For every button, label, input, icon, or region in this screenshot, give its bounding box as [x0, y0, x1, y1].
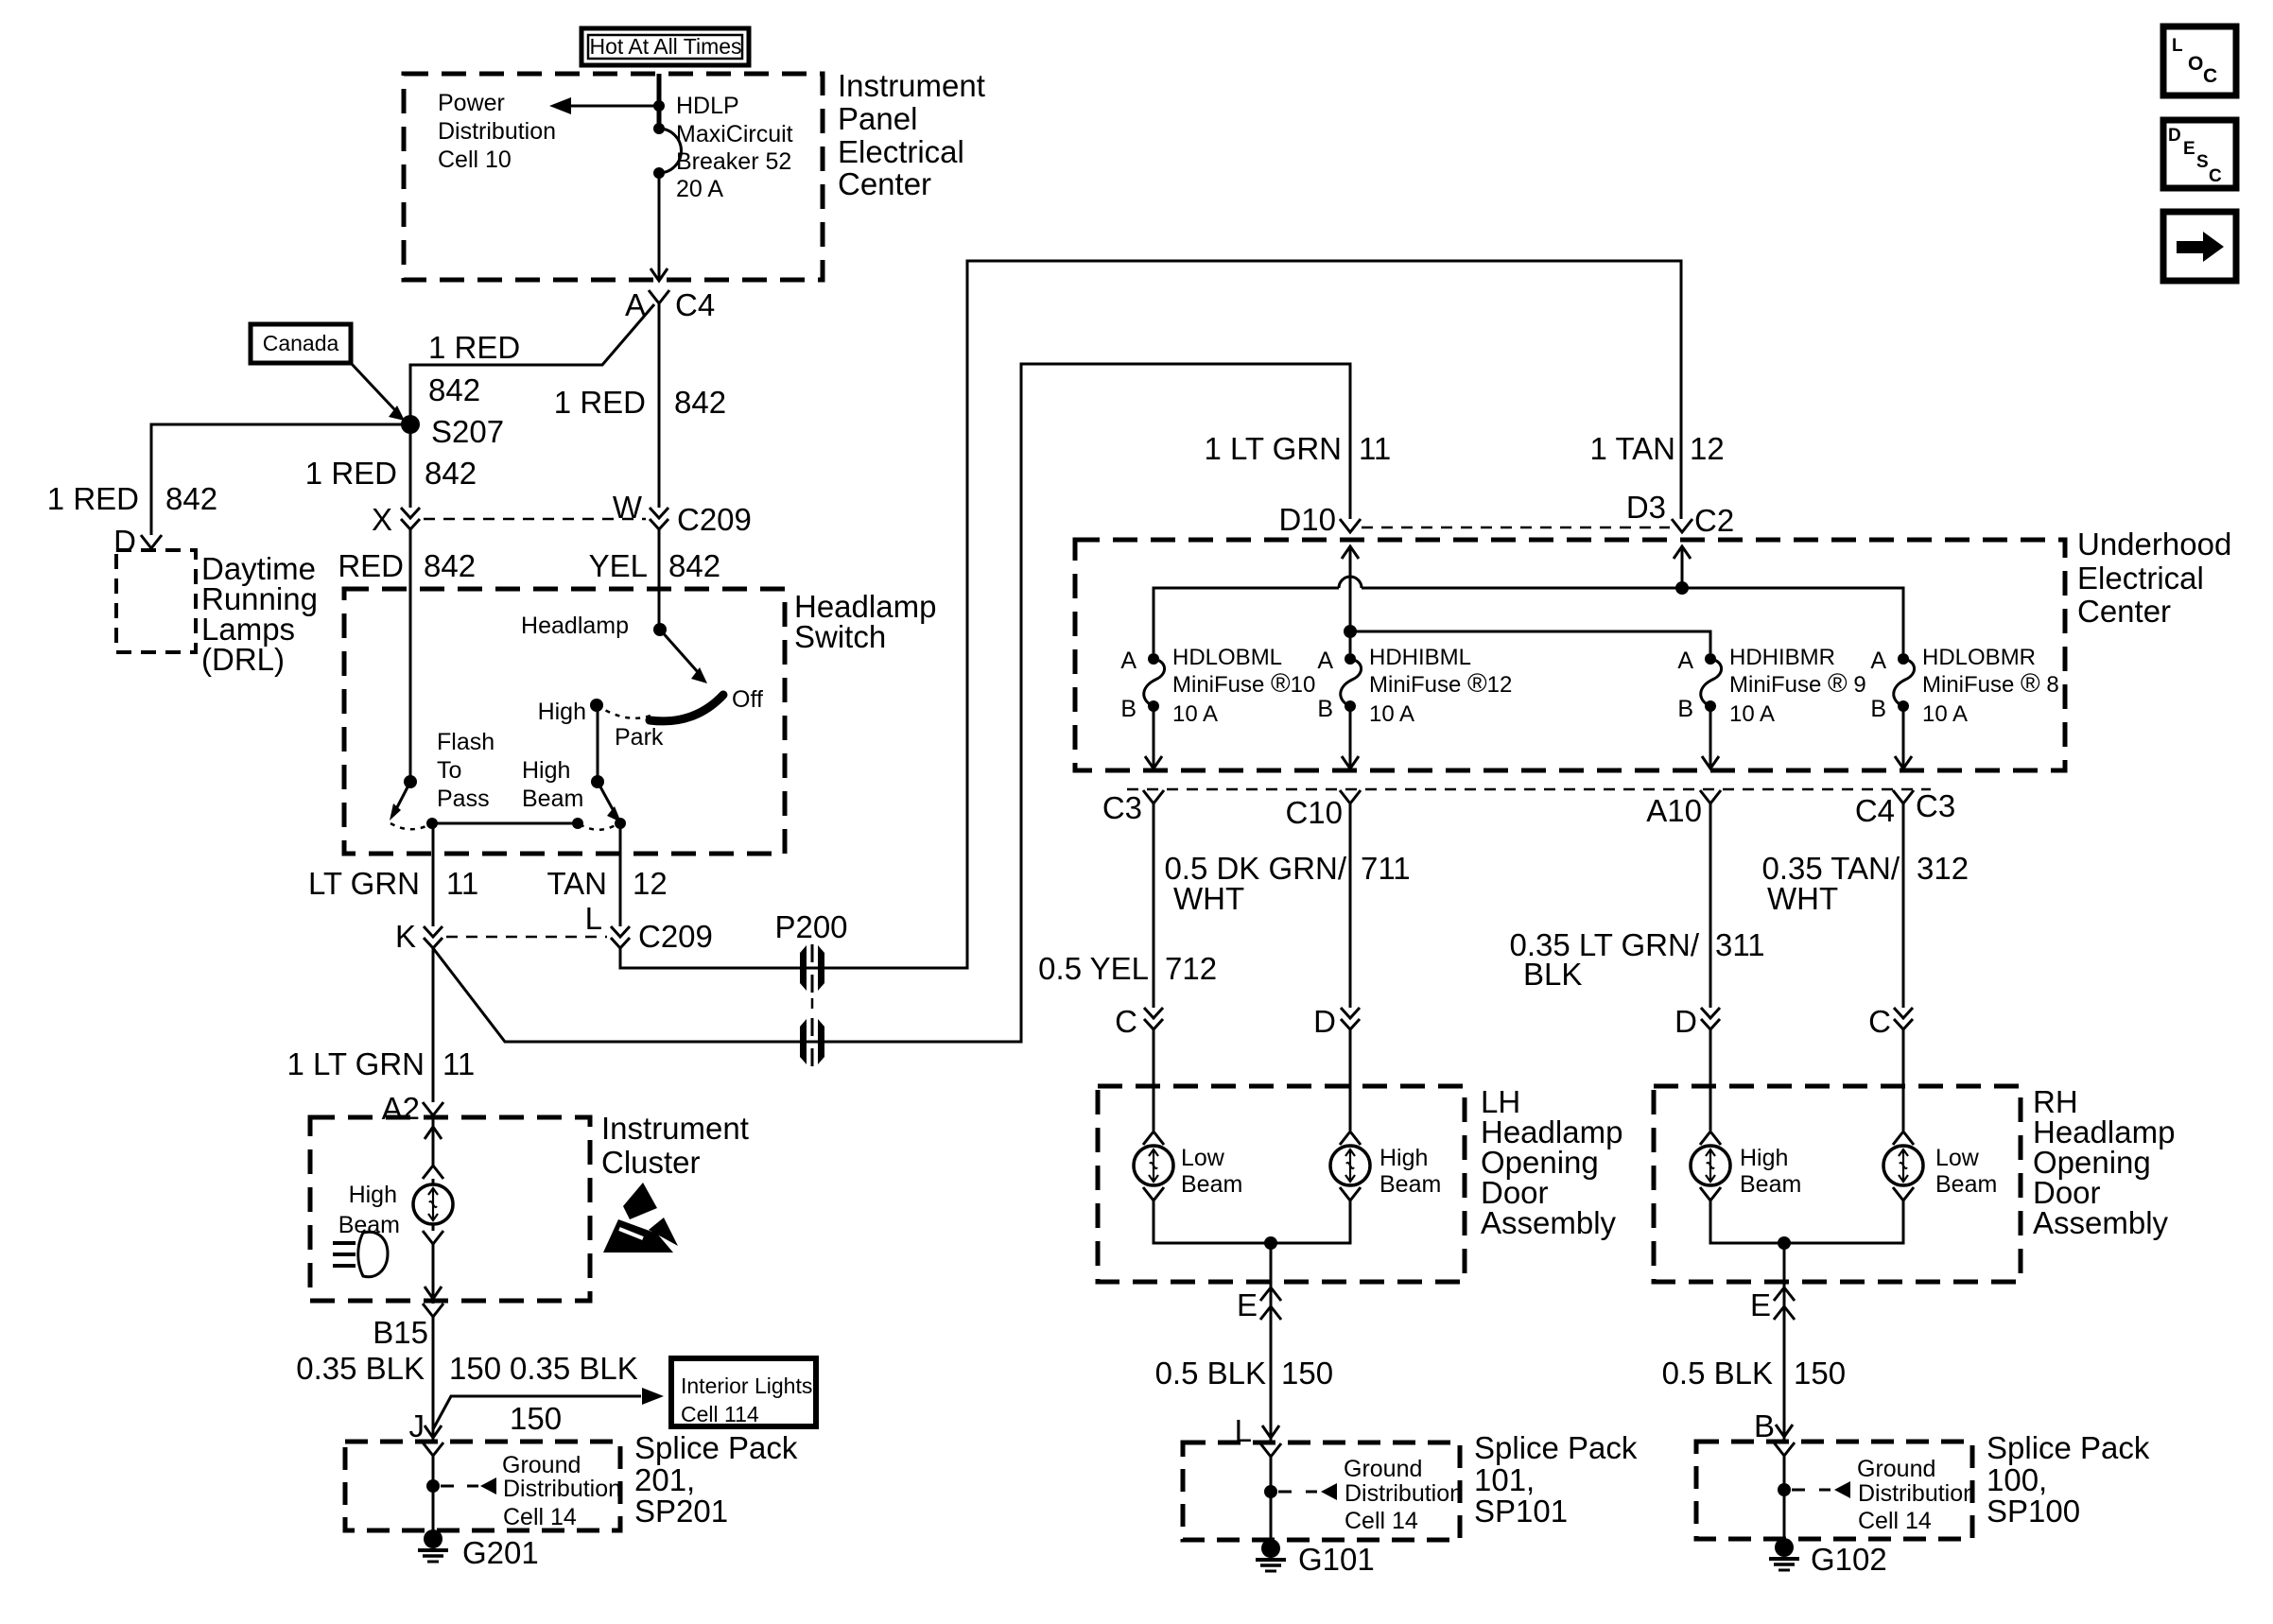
- svg-text:Canada: Canada: [263, 331, 339, 355]
- dashed arc high contact: [580, 823, 618, 830]
- svg-text:1 RED: 1 RED: [305, 456, 397, 491]
- svg-text:Cell 114: Cell 114: [681, 1402, 759, 1426]
- connector E LH: [1237, 1287, 1281, 1322]
- svg-text:E: E: [2183, 139, 2195, 159]
- dashed arc High to Park: [597, 705, 651, 718]
- svg-text:Splice Pack: Splice Pack: [1474, 1430, 1638, 1465]
- node High contact: [590, 699, 603, 712]
- svg-text:0.35 BLK: 0.35 BLK: [510, 1351, 638, 1386]
- wire 1 RED 842 branch to S207: [410, 304, 654, 424]
- svg-text:Distribution: Distribution: [1345, 1480, 1463, 1507]
- svg-text:312: 312: [1917, 851, 1969, 886]
- label 0.5 BLK 150 RH: [1662, 1356, 1846, 1391]
- svg-text:1 LT GRN: 1 LT GRN: [287, 1046, 425, 1081]
- label 0.35 BLK 150: [296, 1351, 501, 1386]
- wire YEL into switch: [658, 529, 661, 630]
- switch arm flash to pass: [390, 782, 410, 821]
- connector L of C209: [585, 901, 713, 954]
- svg-text:High: High: [522, 757, 570, 784]
- component box Splice Pack 201: [345, 1442, 620, 1530]
- wire TAN 12 route through P200 to C2: [620, 261, 1681, 968]
- switch wiper arc Off-Park: [650, 695, 723, 721]
- svg-text:D10: D10: [1278, 502, 1336, 537]
- svg-text:311: 311: [1715, 927, 1765, 962]
- svg-text:C10: C10: [1285, 795, 1343, 830]
- svg-text:C: C: [1868, 1004, 1891, 1039]
- node contact LT GRN: [426, 818, 438, 829]
- label High Beam: [522, 757, 583, 812]
- svg-text:High: High: [1379, 1145, 1428, 1171]
- connector C4 pin A: [625, 287, 715, 322]
- ground G102: [1769, 1538, 1887, 1577]
- wire into RH box high: [1709, 1029, 1712, 1131]
- label 1 LT GRN 11 left: [287, 1046, 476, 1081]
- wire B15 to J: [432, 1317, 435, 1443]
- svg-text:0.5 YEL: 0.5 YEL: [1038, 951, 1149, 986]
- wire High to high-beam pivot: [597, 705, 599, 782]
- wire HDLOBML output: [1145, 706, 1162, 769]
- connector B to splice pack 100: [1754, 1408, 1793, 1443]
- label 1 RED 842 below S207: [305, 456, 477, 491]
- svg-text:842: 842: [674, 385, 726, 420]
- svg-text:G101: G101: [1298, 1542, 1375, 1577]
- svg-text:1 RED: 1 RED: [47, 481, 139, 516]
- lamp RH Low Beam: [1883, 1132, 1997, 1201]
- connector A10: [1646, 790, 1721, 828]
- svg-text:A2: A2: [382, 1091, 420, 1126]
- svg-text:12: 12: [633, 866, 668, 901]
- dashed arc flash contact: [390, 823, 430, 829]
- svg-text:SP100: SP100: [1987, 1494, 2080, 1529]
- icon LOC: [2163, 26, 2236, 95]
- svg-text:HDHIBMR: HDHIBMR: [1729, 645, 1835, 670]
- arrow Canada to S207: [351, 363, 405, 421]
- svg-text:Beam: Beam: [1935, 1171, 1997, 1198]
- connector E RH: [1750, 1287, 1795, 1322]
- wire bus2 high beam feed: [1350, 631, 1710, 653]
- svg-text:100,: 100,: [1987, 1462, 2047, 1497]
- wire C2 drop to bus1: [1681, 546, 1684, 588]
- fuse HDLOBMR MiniFuse 8: [1870, 645, 2058, 727]
- svg-text:Center: Center: [2077, 594, 2171, 629]
- wire RED into switch: [409, 529, 412, 782]
- connector C3 left: [1102, 790, 1164, 825]
- wire HDHIBMR output: [1702, 706, 1719, 769]
- svg-text:B: B: [1120, 696, 1136, 722]
- wire 0.35 LT GRN/BLK 311: [1709, 803, 1712, 1008]
- connector C10: [1285, 790, 1361, 830]
- svg-text:SP201: SP201: [634, 1494, 728, 1529]
- splice J with arrow: [409, 1408, 442, 1443]
- label 1 TAN 12 right: [1590, 431, 1725, 466]
- svg-text:High: High: [538, 699, 586, 725]
- switch arm high beam: [598, 782, 621, 822]
- wire hop over at bus1: [1339, 577, 1362, 588]
- svg-text:B: B: [1870, 696, 1886, 722]
- svg-text:842: 842: [165, 481, 217, 516]
- wire left branch to DRL: [151, 424, 410, 535]
- svg-text:MiniFuse ® 9: MiniFuse ® 9: [1729, 668, 1866, 698]
- wire bus1 low beam feed: [1154, 588, 1903, 653]
- wire 0.5 DK GRN/WHT 711: [1349, 803, 1352, 1008]
- svg-text:Headlamp: Headlamp: [521, 613, 629, 639]
- splice S207: [401, 414, 504, 449]
- wire D10 drop to bus2: [1349, 546, 1352, 653]
- svg-text:Beam: Beam: [1379, 1171, 1441, 1198]
- svg-text:711: 711: [1361, 851, 1411, 886]
- label Ground Distribution Cell 14 at SP100: [1857, 1456, 1976, 1534]
- label 0.35 TAN/WHT 312: [1761, 851, 1969, 916]
- svg-text:C3: C3: [1916, 788, 1955, 823]
- svg-text:Center: Center: [838, 166, 931, 201]
- circuit breaker HDLP MaxiCircuit Breaker 52: [653, 123, 681, 179]
- wire LT GRN output: [432, 823, 435, 926]
- label Underhood Electrical Center: [2077, 527, 2231, 629]
- fuse HDHIBML MiniFuse 12: [1317, 645, 1512, 727]
- svg-text:Beam: Beam: [338, 1212, 400, 1238]
- svg-text:MiniFuse ® 8: MiniFuse ® 8: [1922, 668, 2059, 698]
- wire 0.5 YEL 712: [1153, 803, 1155, 1008]
- svg-text:C4: C4: [675, 287, 715, 322]
- ground G201: [418, 1529, 539, 1570]
- wire hot feed stub: [657, 74, 662, 129]
- component box LH Headlamp Opening Door Assembly: [1098, 1086, 1465, 1282]
- lamp High Beam indicator: [338, 1166, 453, 1244]
- connector A2: [382, 1091, 443, 1126]
- svg-text:L: L: [585, 901, 602, 936]
- svg-text:WHT: WHT: [1173, 881, 1244, 916]
- svg-text:Electrical: Electrical: [838, 134, 964, 169]
- svg-text:J: J: [409, 1408, 425, 1443]
- label Instrument Panel Electrical Center: [838, 68, 985, 201]
- svg-text:Cluster: Cluster: [601, 1145, 701, 1180]
- node headlamp pivot: [653, 623, 667, 636]
- label Power Distribution Cell 10: [438, 90, 556, 173]
- svg-text:G201: G201: [462, 1535, 539, 1570]
- wire HDHIBML output: [1342, 706, 1359, 769]
- svg-text:D: D: [2168, 126, 2181, 146]
- connector D to DRL: [113, 524, 162, 559]
- svg-text:12: 12: [1690, 431, 1725, 466]
- svg-text:BLK: BLK: [1523, 957, 1582, 992]
- svg-text:(DRL): (DRL): [201, 642, 285, 677]
- svg-text:101,: 101,: [1474, 1462, 1535, 1497]
- label Flash To Pass: [437, 729, 495, 812]
- svg-text:B: B: [1754, 1408, 1775, 1443]
- svg-text:Assembly: Assembly: [1481, 1205, 1617, 1240]
- svg-text:Flash: Flash: [437, 729, 495, 755]
- arrow up to D10 inside box: [1342, 546, 1359, 559]
- pass-through connector P200 upper: [800, 944, 824, 993]
- lamp LH Low Beam: [1134, 1132, 1242, 1201]
- svg-text:0.5 BLK: 0.5 BLK: [1155, 1356, 1266, 1391]
- svg-text:A: A: [1120, 648, 1136, 674]
- component box Instrument Panel Electrical Center: [404, 74, 823, 280]
- component box Splice Pack 100: [1696, 1442, 1972, 1539]
- svg-text:P200: P200: [774, 909, 847, 944]
- svg-text:G102: G102: [1811, 1542, 1887, 1577]
- svg-text:HDLOBMR: HDLOBMR: [1922, 645, 2036, 670]
- svg-text:Beam: Beam: [522, 786, 583, 812]
- svg-text:Cell 14: Cell 14: [1858, 1508, 1932, 1534]
- svg-text:Power: Power: [438, 90, 505, 116]
- svg-text:D: D: [1313, 1004, 1336, 1039]
- label 0.5 YEL 712: [1038, 951, 1217, 986]
- svg-text:MiniFuse ®12: MiniFuse ®12: [1369, 668, 1512, 698]
- component box Daytime Running Lamps DRL: [116, 550, 196, 652]
- label LH Headlamp Opening Door Assembly: [1481, 1084, 1622, 1240]
- node contact TAN: [615, 818, 626, 829]
- svg-text:LT GRN: LT GRN: [308, 866, 420, 901]
- wire LT GRN 11 route through P200 to D10: [433, 364, 1350, 1042]
- label 1 LT GRN 11 right: [1205, 431, 1392, 466]
- svg-text:A: A: [1677, 648, 1693, 674]
- svg-text:C3: C3: [1102, 790, 1142, 825]
- svg-text:O: O: [2188, 53, 2203, 75]
- svg-text:Distribution: Distribution: [503, 1476, 621, 1502]
- svg-text:712: 712: [1165, 951, 1217, 986]
- wire contact link: [432, 822, 578, 825]
- connector B15: [373, 1304, 443, 1350]
- node bus2 junction: [1344, 625, 1357, 638]
- component box Headlamp Switch: [344, 589, 785, 854]
- svg-text:C209: C209: [638, 919, 713, 954]
- svg-text:High: High: [1740, 1145, 1788, 1171]
- svg-text:Instrument: Instrument: [601, 1111, 749, 1146]
- arrow up to C2 inside box: [1674, 546, 1691, 559]
- svg-text:150: 150: [1794, 1356, 1846, 1391]
- label Ground Distribution Cell 14 at SP201: [502, 1452, 621, 1530]
- arrow to power distribution: [549, 97, 571, 114]
- svg-text:Switch: Switch: [794, 619, 886, 654]
- svg-text:0.5 BLK: 0.5 BLK: [1662, 1356, 1773, 1391]
- svg-text:B15: B15: [373, 1315, 428, 1350]
- label Ground Distribution Cell 14 at SP101: [1344, 1456, 1463, 1534]
- svg-text:Distribution: Distribution: [1858, 1480, 1976, 1507]
- connector C4 C3 right: [1855, 788, 1955, 828]
- svg-text:Breaker 52: Breaker 52: [676, 148, 791, 175]
- svg-text:11: 11: [446, 866, 478, 901]
- wire dashed underhood bottom connector row: [1127, 788, 1931, 791]
- wire RH lamp join: [1710, 1201, 1903, 1243]
- component box RH Headlamp Opening Door Assembly: [1654, 1086, 2021, 1282]
- svg-text:Ground: Ground: [1344, 1456, 1422, 1482]
- fuse HDHIBMR MiniFuse 9: [1677, 645, 1865, 727]
- svg-text:10 A: 10 A: [1922, 701, 1968, 727]
- svg-text:C: C: [2203, 65, 2217, 87]
- wire splice 101: [1270, 1457, 1273, 1548]
- wire TAN output: [619, 823, 622, 926]
- svg-text:842: 842: [425, 456, 477, 491]
- svg-text:Interior Lights: Interior Lights: [681, 1373, 812, 1398]
- label 1 RED 842 left: [47, 481, 217, 516]
- svg-text:Ground: Ground: [1857, 1456, 1935, 1482]
- wire breaker output: [658, 173, 661, 281]
- wire into LH box high: [1349, 1029, 1352, 1131]
- connector D on RH high beam: [1674, 1004, 1720, 1039]
- ground G101: [1256, 1539, 1375, 1577]
- arrow ground distribution 201: [441, 1477, 496, 1494]
- svg-text:E: E: [1237, 1287, 1258, 1322]
- wire S207 down to X: [409, 434, 412, 508]
- callout Interior Lights Cell 114: [671, 1358, 816, 1426]
- switch arm headlamp to Off: [660, 630, 707, 683]
- label 0.5 DK GRN/WHT 711: [1164, 851, 1410, 916]
- label Instrument Cluster: [601, 1111, 749, 1180]
- component box Splice Pack 101: [1183, 1443, 1460, 1540]
- svg-text:MaxiCircuit: MaxiCircuit: [676, 121, 793, 147]
- wire into LH box low: [1153, 1029, 1155, 1131]
- svg-text:Off: Off: [732, 686, 763, 713]
- node LH join: [1264, 1236, 1277, 1250]
- lamp LH High Beam: [1330, 1132, 1441, 1201]
- svg-text:A: A: [1870, 648, 1886, 674]
- svg-text:Splice Pack: Splice Pack: [1987, 1430, 2150, 1465]
- node splice 100: [1778, 1483, 1791, 1496]
- label 0.35 LT GRN/BLK 311: [1509, 927, 1764, 992]
- label 0.5 BLK 150 LH: [1155, 1356, 1333, 1391]
- svg-text:150: 150: [1281, 1356, 1333, 1391]
- svg-text:Beam: Beam: [1740, 1171, 1801, 1198]
- svg-text:10 A: 10 A: [1369, 701, 1414, 727]
- svg-text:C4: C4: [1855, 793, 1895, 828]
- svg-text:A10: A10: [1646, 793, 1702, 828]
- label 1 RED 842 on C4 wire: [554, 385, 726, 420]
- svg-text:Distribution: Distribution: [438, 118, 556, 145]
- svg-text:Electrical: Electrical: [2077, 561, 2204, 596]
- svg-text:1 RED: 1 RED: [428, 330, 520, 365]
- svg-text:RED: RED: [338, 548, 404, 583]
- wire LH lamp join: [1154, 1201, 1350, 1243]
- node splice 201: [426, 1479, 440, 1493]
- svg-text:201,: 201,: [634, 1462, 695, 1497]
- svg-text:E: E: [1750, 1287, 1771, 1322]
- component box Underhood Electrical Center: [1075, 540, 2065, 770]
- connector C on RH low beam: [1868, 1004, 1913, 1039]
- svg-text:10 A: 10 A: [1729, 701, 1775, 727]
- svg-text:Low: Low: [1181, 1145, 1225, 1171]
- svg-text:Splice Pack: Splice Pack: [634, 1430, 798, 1465]
- callout Canada: [251, 324, 351, 363]
- svg-text:HDHIBML: HDHIBML: [1369, 645, 1471, 670]
- arrow down at box exit: [651, 268, 668, 281]
- label Daytime Running Lamps (DRL): [201, 551, 318, 677]
- wire power distribution branch: [567, 105, 659, 108]
- label HDLP MaxiCircuit Breaker 52 20 A: [676, 93, 793, 202]
- callout Hot At All Times: [581, 28, 749, 65]
- svg-text:Panel: Panel: [838, 101, 917, 136]
- wire RH ground drop: [1783, 1243, 1786, 1442]
- icon forward arrow: [2163, 212, 2236, 281]
- node junction on feed: [653, 100, 665, 112]
- svg-text:K: K: [395, 919, 416, 954]
- wire HDLOBMR output: [1895, 706, 1912, 769]
- label Splice Pack 201 SP201: [634, 1430, 798, 1529]
- svg-text:20 A: 20 A: [676, 176, 723, 202]
- svg-text:Underhood: Underhood: [2077, 527, 2231, 561]
- connector C on LH low beam: [1115, 1004, 1163, 1039]
- svg-text:11: 11: [1359, 431, 1391, 466]
- wire K down to instrument cluster: [432, 948, 435, 1102]
- connector D10: [1278, 502, 1361, 537]
- svg-text:1 TAN: 1 TAN: [1590, 431, 1675, 466]
- connector X of C209: [372, 502, 420, 537]
- svg-text:10 A: 10 A: [1172, 701, 1218, 727]
- svg-text:Cell 10: Cell 10: [438, 147, 512, 173]
- node high-beam pivot: [591, 775, 604, 788]
- svg-text:842: 842: [428, 372, 480, 407]
- label Splice Pack 100 SP100: [1987, 1430, 2150, 1529]
- label RED 842: [338, 548, 476, 583]
- node contact link right: [572, 818, 583, 829]
- wire 0.35 TAN/WHT 312: [1902, 803, 1905, 1008]
- svg-text:842: 842: [668, 548, 720, 583]
- svg-text:A: A: [1317, 648, 1333, 674]
- svg-text:Cell 14: Cell 14: [1345, 1508, 1418, 1534]
- svg-text:11: 11: [442, 1046, 475, 1081]
- node flash pivot: [404, 775, 417, 788]
- wire LH ground drop: [1270, 1243, 1273, 1443]
- svg-text:Ground: Ground: [502, 1452, 581, 1478]
- wire dashed D10-D3: [1362, 527, 1670, 529]
- svg-text:SP101: SP101: [1474, 1494, 1568, 1529]
- arrow ground distribution 100: [1792, 1481, 1850, 1498]
- svg-text:842: 842: [424, 548, 476, 583]
- label YEL 842: [589, 548, 720, 583]
- svg-text:X: X: [372, 502, 392, 537]
- connector Y splice 101: [1260, 1443, 1281, 1457]
- svg-text:Assembly: Assembly: [2033, 1205, 2169, 1240]
- svg-text:HDLOBML: HDLOBML: [1172, 645, 1282, 670]
- connector Y splice 100: [1774, 1443, 1795, 1456]
- svg-text:C: C: [1115, 1004, 1137, 1039]
- label Headlamp Switch: [794, 589, 936, 654]
- label TAN 12: [547, 866, 667, 901]
- wire 1 RED 842 down from C4: [658, 303, 661, 508]
- svg-text:150: 150: [449, 1351, 501, 1386]
- svg-text:Hot At All Times: Hot At All Times: [589, 34, 741, 59]
- svg-text:L: L: [2172, 36, 2183, 56]
- svg-text:WHT: WHT: [1767, 881, 1838, 916]
- arrow ground distribution 101: [1278, 1483, 1337, 1500]
- fuse HDLOBML MiniFuse 10: [1120, 645, 1315, 727]
- svg-text:S: S: [2196, 152, 2209, 172]
- icon DESC: [2163, 120, 2236, 188]
- node RH join: [1778, 1236, 1791, 1250]
- icon high beam indicator: [333, 1232, 388, 1276]
- svg-text:TAN: TAN: [547, 866, 607, 901]
- wire dashed P200 link: [811, 998, 814, 1032]
- svg-text:Low: Low: [1935, 1145, 1980, 1171]
- svg-text:1 LT GRN: 1 LT GRN: [1205, 431, 1343, 466]
- wire into cluster with up arrow: [425, 1115, 442, 1166]
- label LT GRN 11: [308, 866, 478, 901]
- wire dashed C209 X-W: [424, 518, 646, 521]
- label 0.35 BLK 150 branch: [510, 1351, 638, 1436]
- svg-text:B: B: [1317, 696, 1333, 722]
- svg-text:Pass: Pass: [437, 786, 490, 812]
- connector K of C209: [395, 919, 442, 954]
- node splice 101: [1264, 1485, 1277, 1498]
- svg-text:Park: Park: [615, 724, 664, 751]
- svg-text:Instrument: Instrument: [838, 68, 985, 103]
- label RH Headlamp Opening Door Assembly: [2033, 1084, 2175, 1240]
- wire dashed C209 K-L: [446, 936, 607, 939]
- svg-text:150: 150: [510, 1401, 562, 1436]
- icon ESD sensitive symbol: [603, 1183, 678, 1253]
- connector D3 C2: [1626, 490, 1734, 538]
- svg-text:C2: C2: [1694, 503, 1734, 538]
